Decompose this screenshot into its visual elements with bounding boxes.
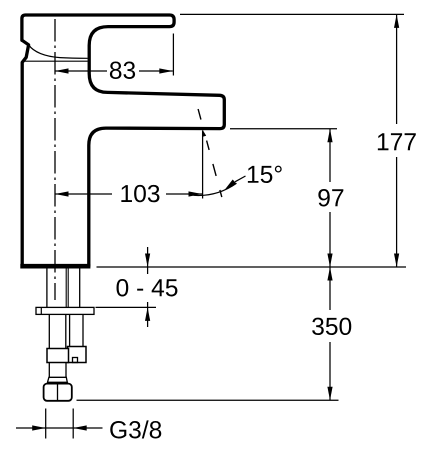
value label 15 deg — [248, 166, 282, 183]
value label G3/8 — [110, 420, 161, 438]
ferrule flare — [48, 377, 68, 382]
hose lower tube — [48, 363, 50, 378]
dimension 97 — [329, 129, 331, 182]
dimension 103 — [55, 193, 112, 195]
dimension 177 — [396, 14, 398, 124]
value label 0 - 45 — [117, 279, 178, 296]
value label 103 — [121, 185, 159, 202]
spout outlet reference line — [230, 128, 337, 130]
leader to 15 deg — [235, 176, 246, 182]
shank tube below counter — [46, 269, 48, 308]
arc arrowhead — [224, 180, 236, 191]
faucet outline: lever, spout, body — [22, 15, 224, 266]
dimension 350 — [329, 267, 331, 310]
hose end reference line — [77, 399, 339, 401]
hex nut G3/8 — [44, 384, 72, 401]
mounting flange — [36, 307, 94, 314]
valve stud tube — [69, 314, 71, 346]
vertical angle reference line — [202, 130, 204, 198]
lever skirt seam curve (thin) — [29, 45, 88, 58]
value label 83 — [110, 62, 135, 79]
lever tail / body left edge — [22, 40, 29, 266]
angle arc — [194, 183, 237, 195]
value label 177 — [378, 133, 416, 150]
outlet arrowhead on 15 deg axis — [203, 130, 207, 137]
body top joint line (thin) — [22, 60, 87, 62]
hose crimp collar — [47, 349, 69, 363]
value label 350 — [312, 318, 351, 335]
hose upper tube — [48, 314, 50, 348]
centerline axis — [54, 19, 56, 300]
top reference line — [180, 13, 404, 15]
dimension 83 — [55, 70, 107, 72]
dimension G3/8 — [45, 409, 47, 439]
value label 97 — [318, 189, 343, 206]
83 extension line — [172, 34, 174, 76]
flange reference line — [96, 306, 157, 308]
dimension 0-45 — [147, 247, 149, 267]
counter reference line — [97, 266, 407, 268]
valve block — [68, 347, 87, 363]
body bottom thick bar — [20, 264, 90, 269]
15 deg dashed axis — [198, 109, 222, 197]
